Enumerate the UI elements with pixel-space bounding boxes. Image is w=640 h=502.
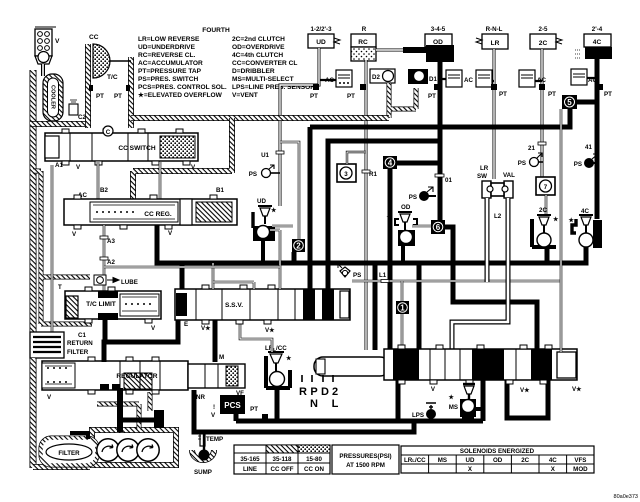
svg-text:V★: V★ bbox=[265, 327, 275, 334]
wire A3/A2 drop bbox=[103, 225, 106, 332]
svg-text:PS=PRES. SWITCH: PS=PRES. SWITCH bbox=[138, 76, 199, 83]
wire UD box down bbox=[280, 48, 319, 206]
svg-text:4C: 4C bbox=[593, 39, 602, 46]
accumulator AC (LR) bbox=[476, 70, 492, 87]
svg-text:VAL: VAL bbox=[503, 172, 515, 179]
svg-text:R: R bbox=[299, 386, 307, 398]
svg-text:V★: V★ bbox=[520, 387, 530, 394]
wire L1 bbox=[352, 280, 561, 283]
svg-text:01: 01 bbox=[445, 177, 452, 184]
wire lube arrow bbox=[107, 278, 119, 283]
wire CC REG feed from top of bus bbox=[155, 225, 160, 226]
pressure switch PS (L1) bbox=[338, 264, 361, 279]
svg-text:MS: MS bbox=[438, 457, 447, 464]
wire LR/CC sol to bottom bus (thick) bbox=[236, 390, 277, 421]
svg-text:2C: 2C bbox=[521, 457, 529, 464]
svg-text:4C: 4C bbox=[581, 208, 589, 215]
svg-text:★: ★ bbox=[447, 394, 454, 401]
pipe D2 to D1 (hatched) bbox=[389, 83, 416, 118]
tick on OD line bbox=[435, 174, 444, 177]
wire manual valve loop 2 (thick) bbox=[507, 380, 548, 418]
svg-text:T/C: T/C bbox=[107, 74, 118, 81]
svg-text:PT: PT bbox=[604, 91, 612, 98]
wire bottom bus (thick) bbox=[236, 419, 483, 424]
T/C enclosure dome top bbox=[110, 60, 131, 62]
svg-text:6: 6 bbox=[436, 223, 441, 232]
node 7 bbox=[536, 177, 555, 195]
wire manual valve loop 1 (thick) bbox=[398, 380, 483, 421]
wire A1 down bbox=[51, 165, 54, 335]
svg-text:UD: UD bbox=[257, 198, 266, 205]
svg-text:D=DRIBBLER: D=DRIBBLER bbox=[232, 68, 275, 75]
svg-text:2C: 2C bbox=[539, 40, 548, 47]
svg-text:S.S.V.: S.S.V. bbox=[225, 302, 243, 309]
svg-text:21: 21 bbox=[528, 145, 535, 152]
svg-text:FILTER: FILTER bbox=[58, 450, 80, 457]
svg-text:PT: PT bbox=[310, 93, 318, 100]
wire 4C sol down to bus (thick) bbox=[584, 247, 589, 263]
pipe left frame (hatched) bbox=[30, 70, 37, 467]
sump pickup bbox=[192, 434, 214, 476]
RC clutch box bbox=[351, 34, 376, 61]
svg-text:A1: A1 bbox=[55, 162, 63, 169]
pressure switch PS (01) bbox=[409, 187, 436, 201]
PCS solenoid box bbox=[220, 395, 245, 414]
wire SSV M port to regulator ext (thick) bbox=[213, 320, 218, 362]
wire PCS to bottom bus (thick) bbox=[234, 414, 239, 421]
svg-text:SUMP: SUMP bbox=[194, 469, 212, 476]
wire UD branch to node2 bbox=[280, 142, 299, 239]
svg-text:UD: UD bbox=[316, 39, 326, 46]
LR clutch box bbox=[476, 34, 508, 49]
svg-text:D: D bbox=[321, 386, 329, 398]
svg-text:80a0e373: 80a0e373 bbox=[614, 494, 638, 500]
svg-text:PS: PS bbox=[353, 272, 361, 279]
svg-text:PT: PT bbox=[428, 93, 436, 100]
pressure switch PS (41) bbox=[574, 154, 598, 168]
node 6 bbox=[431, 220, 445, 234]
pump gear 3 bbox=[137, 439, 159, 461]
svg-text:D2: D2 bbox=[372, 74, 380, 81]
CC SWITCH valve bbox=[45, 129, 198, 165]
wire node7 to 2C sol bbox=[545, 195, 548, 216]
svg-text:SOLENOIDS ENERGIZED: SOLENOIDS ENERGIZED bbox=[460, 448, 535, 455]
svg-text:★: ★ bbox=[567, 217, 574, 224]
S.S.V. valve bbox=[175, 285, 350, 324]
svg-text:PS: PS bbox=[409, 194, 417, 201]
dribbler D1 bbox=[408, 69, 437, 84]
svg-text:D1: D1 bbox=[429, 76, 437, 83]
wire node6 to manual valve (thick) bbox=[445, 227, 537, 350]
svg-text:PCS: PCS bbox=[224, 401, 241, 410]
wire node3 hook to R1 line bbox=[347, 152, 366, 164]
svg-text:15-80: 15-80 bbox=[306, 456, 322, 463]
solenoid OD bbox=[385, 204, 417, 262]
wire B2 drop bbox=[98, 162, 160, 200]
svg-text:LINE: LINE bbox=[243, 466, 257, 473]
PT tap bottom bus bbox=[250, 406, 268, 421]
svg-text:M: M bbox=[219, 354, 224, 361]
svg-text:L2: L2 bbox=[494, 213, 502, 220]
svg-text:PT: PT bbox=[114, 93, 122, 100]
node 4 bbox=[383, 156, 397, 169]
wire OD sol to node 6 bbox=[412, 225, 432, 228]
PT tap UD bbox=[310, 84, 319, 100]
svg-text:UD=UNDERDRIVE: UD=UNDERDRIVE bbox=[138, 44, 196, 51]
solenoid 2C bbox=[532, 207, 559, 247]
pressure switch PS (21) bbox=[518, 153, 543, 167]
wire RC down to manual valve bbox=[365, 60, 368, 350]
svg-text:4: 4 bbox=[388, 159, 393, 168]
pump gear 1 bbox=[97, 439, 119, 461]
UD clutch box bbox=[308, 34, 340, 48]
svg-text:LR=LOW REVERSE: LR=LOW REVERSE bbox=[138, 36, 200, 43]
svg-text:PT: PT bbox=[548, 91, 556, 98]
pump suction enclosure (hatched) bbox=[92, 430, 176, 465]
svg-text:PS: PS bbox=[249, 171, 257, 178]
cooler bbox=[43, 74, 63, 121]
wire UD sol to node 2 bbox=[272, 225, 293, 228]
svg-text:LR: LR bbox=[491, 40, 500, 47]
wire SSV E port to regulator (thick) bbox=[104, 320, 178, 362]
svg-text:FILTER: FILTER bbox=[67, 349, 89, 356]
svg-text:T/C LIMIT: T/C LIMIT bbox=[86, 301, 116, 308]
svg-text:NR: NR bbox=[196, 394, 205, 401]
svg-text:MS: MS bbox=[449, 404, 458, 411]
svg-text:R: R bbox=[362, 26, 367, 33]
wire MS sol to loop (thick) bbox=[476, 407, 483, 411]
node C circle bbox=[103, 126, 113, 136]
svg-text:CC OFF: CC OFF bbox=[270, 466, 293, 473]
PT tap T/C left bbox=[89, 85, 104, 100]
svg-text:!: ! bbox=[213, 404, 215, 411]
vent stack bbox=[35, 27, 60, 64]
MS box to bus bbox=[462, 416, 474, 422]
svg-text:PT: PT bbox=[347, 93, 355, 100]
pressure table bbox=[234, 445, 330, 474]
svg-text:5: 5 bbox=[567, 98, 572, 107]
svg-text:2C: 2C bbox=[539, 207, 547, 214]
svg-text:VFS: VFS bbox=[574, 457, 586, 464]
svg-text:LRL/CC: LRL/CC bbox=[404, 457, 426, 464]
svg-text:FOURTH: FOURTH bbox=[202, 27, 230, 34]
solenoid MS bbox=[449, 384, 476, 417]
svg-text:41: 41 bbox=[585, 144, 592, 151]
wire upper bus riser into node2 (thick) bbox=[303, 127, 305, 239]
pump gear 2 bbox=[117, 439, 139, 461]
wire A2 to SSV area bbox=[104, 266, 280, 269]
pipe frame to filter (hatched) bbox=[33, 464, 90, 470]
PT tap 2C bbox=[539, 84, 556, 98]
svg-text:L: L bbox=[332, 398, 339, 410]
PT tap OD bbox=[428, 84, 440, 100]
T/C enclosure left wall bbox=[85, 44, 91, 128]
svg-text:AC=ACCUMULATOR: AC=ACCUMULATOR bbox=[138, 60, 203, 67]
svg-text:AC: AC bbox=[464, 77, 473, 84]
svg-text:R-N-L: R-N-L bbox=[486, 26, 503, 33]
svg-text:C2: C2 bbox=[78, 114, 86, 121]
svg-text:AT 1500 RPM: AT 1500 RPM bbox=[346, 462, 385, 469]
LR switch valve bbox=[482, 181, 513, 198]
svg-text:3: 3 bbox=[344, 171, 348, 178]
wire RC to OD bbox=[376, 49, 404, 52]
accumulator AC (UD) bbox=[325, 70, 352, 87]
PT tap 4C bbox=[596, 84, 612, 98]
node 5 bbox=[562, 95, 577, 109]
accumulator AC (4C) bbox=[571, 69, 597, 85]
node 1 bbox=[396, 301, 409, 314]
svg-text:7: 7 bbox=[544, 184, 548, 191]
svg-text:SW: SW bbox=[477, 173, 487, 180]
svg-text:RETURN: RETURN bbox=[67, 340, 93, 347]
svg-text:REGULATOR: REGULATOR bbox=[116, 373, 157, 380]
svg-text:OD: OD bbox=[433, 39, 443, 46]
svg-text:RC: RC bbox=[358, 39, 368, 46]
manual valve stem bbox=[314, 357, 389, 376]
svg-text:2-5: 2-5 bbox=[539, 26, 549, 33]
accumulator stubs bbox=[320, 78, 596, 81]
wire regulator drain to outer bus (thick) bbox=[194, 390, 414, 432]
svg-text:PCS=PRES. CONTROL SOL.: PCS=PRES. CONTROL SOL. bbox=[138, 84, 227, 91]
solenoid 4C bbox=[567, 208, 602, 248]
wire suction branch (thick) bbox=[120, 418, 154, 423]
node 2 bbox=[292, 239, 305, 252]
wire main line bus (thick) bbox=[157, 226, 586, 263]
svg-text:★=ELEVATED OVERFLOW: ★=ELEVATED OVERFLOW bbox=[138, 91, 223, 99]
svg-text:★: ★ bbox=[285, 355, 292, 362]
svg-text:C: C bbox=[106, 129, 111, 136]
wire 4C clutch feed (thick) bbox=[595, 59, 600, 219]
solenoid LR/CC bbox=[265, 345, 292, 388]
svg-text:U1: U1 bbox=[261, 152, 269, 159]
svg-text:PS: PS bbox=[518, 160, 526, 167]
wire SSV to LR/CC sol bbox=[240, 320, 272, 352]
C2 component bbox=[69, 100, 86, 121]
svg-text:4C: 4C bbox=[549, 457, 557, 464]
svg-text:1-2/2'-3: 1-2/2'-3 bbox=[310, 26, 332, 33]
pressure switch PS (U1) bbox=[249, 165, 280, 178]
PT tap RC bbox=[347, 84, 366, 100]
svg-text:★: ★ bbox=[385, 214, 392, 221]
wire node2 to main bus (thick) bbox=[292, 252, 297, 264]
regulator right extension valve bbox=[188, 364, 245, 388]
solenoid UD bbox=[253, 198, 277, 263]
svg-text:35-118: 35-118 bbox=[273, 456, 292, 463]
svg-text:TEMP: TEMP bbox=[206, 436, 223, 443]
svg-text:B2: B2 bbox=[100, 187, 108, 194]
wire 2C box down bbox=[541, 49, 544, 178]
solenoids energized table bbox=[401, 446, 594, 473]
tick 21 bbox=[538, 142, 546, 145]
svg-text:PRESSURES(PSI): PRESSURES(PSI) bbox=[339, 453, 391, 460]
svg-text:CC: CC bbox=[89, 34, 99, 41]
accumulator AC (2C) bbox=[519, 70, 546, 87]
wire second upper bus (thick) bbox=[328, 141, 440, 289]
wire pump suction (thick) bbox=[117, 388, 123, 432]
4C clutch box (active) bbox=[575, 34, 612, 59]
wire bus riser x375 (thick) bbox=[373, 263, 378, 350]
svg-text:LRL/CC: LRL/CC bbox=[265, 345, 287, 352]
svg-text:PS: PS bbox=[574, 161, 582, 168]
tick L1 bbox=[381, 280, 389, 283]
tick R1 bbox=[362, 170, 370, 173]
sensor LPS bbox=[412, 403, 436, 419]
wire OD clutch feed (thick) bbox=[438, 62, 443, 234]
svg-text:COOLER: COOLER bbox=[50, 85, 56, 109]
svg-text:V=VENT: V=VENT bbox=[232, 92, 258, 99]
return filter bbox=[30, 332, 93, 358]
wire SSV top link bbox=[213, 282, 254, 289]
svg-text:B1: B1 bbox=[216, 187, 224, 194]
pressures caption box bbox=[332, 445, 399, 474]
converter feed line (hatched) to D2 bbox=[131, 115, 389, 121]
dribbler D2 bbox=[370, 69, 395, 83]
manual valve body bbox=[384, 345, 577, 384]
wire bus riser x419 (thick) bbox=[417, 263, 422, 350]
svg-text:P: P bbox=[310, 386, 317, 398]
svg-text:LUBE: LUBE bbox=[121, 279, 138, 286]
wire bus to SSV left end (thick) bbox=[180, 263, 185, 292]
svg-text:V: V bbox=[55, 38, 60, 45]
pipe return filter down (hatched) bbox=[30, 358, 37, 468]
svg-text:35-165: 35-165 bbox=[240, 456, 260, 463]
svg-text:E: E bbox=[184, 321, 188, 328]
OD clutch box (active) bbox=[425, 34, 454, 62]
svg-text:PT: PT bbox=[499, 91, 507, 98]
wire 2C sol to bus bbox=[545, 247, 550, 263]
pipe frame branch to lube (hatched) bbox=[33, 171, 92, 324]
lube dribbler bbox=[94, 275, 106, 285]
svg-text:V★: V★ bbox=[572, 386, 582, 393]
svg-text:PT=PRESSURE TAP: PT=PRESSURE TAP bbox=[138, 68, 202, 75]
wire C1 from T/C limit (thick) bbox=[103, 319, 108, 344]
svg-text:4C=4th CLUTCH: 4C=4th CLUTCH bbox=[232, 52, 283, 59]
2C clutch box bbox=[530, 34, 562, 49]
wire LR valve stem right (L2) bbox=[452, 198, 508, 350]
svg-text:L1: L1 bbox=[379, 272, 387, 279]
svg-text:T: T bbox=[58, 284, 62, 291]
wire node5 stub (thick) bbox=[577, 100, 597, 105]
svg-text:CC ON: CC ON bbox=[304, 466, 324, 473]
svg-text:3-4-5: 3-4-5 bbox=[431, 26, 446, 33]
T/C LIMIT valve bbox=[65, 287, 161, 323]
svg-text:LPS: LPS bbox=[412, 412, 424, 419]
svg-text:C1: C1 bbox=[78, 332, 86, 339]
thermometer TEMP bbox=[198, 431, 223, 446]
wire LR box down bbox=[493, 49, 496, 179]
svg-text:N: N bbox=[310, 398, 318, 410]
pipe cooler to T/C (hatched) bbox=[30, 121, 88, 127]
wire L1 to node1 to valve bbox=[401, 281, 404, 350]
regulator bottom ports bbox=[100, 384, 109, 390]
selector position ticks bbox=[302, 375, 333, 382]
node U1 tick bbox=[261, 151, 284, 159]
tick A2 bbox=[100, 257, 108, 260]
PT tap T/C right bbox=[114, 85, 130, 100]
port block bbox=[154, 410, 164, 428]
svg-text:2: 2 bbox=[296, 242, 301, 251]
svg-text:2: 2 bbox=[332, 386, 338, 398]
svg-text:LR: LR bbox=[480, 165, 489, 172]
svg-text:PT: PT bbox=[250, 406, 258, 413]
wire SSV top port 1 bbox=[212, 263, 215, 289]
svg-text:★: ★ bbox=[552, 216, 559, 223]
svg-text:2'-4: 2'-4 bbox=[592, 26, 603, 33]
converter clutch dome (dotted) bbox=[93, 44, 110, 78]
wire vent to cooler bbox=[41, 64, 45, 76]
svg-text:PT: PT bbox=[96, 93, 104, 100]
wire node5 down line (thin) bbox=[560, 109, 563, 352]
pipe suction channel (hatched) bbox=[97, 392, 150, 430]
svg-text:1: 1 bbox=[400, 304, 405, 313]
svg-text:OD=OVERDRIVE: OD=OVERDRIVE bbox=[232, 44, 285, 51]
svg-text:CC REG.: CC REG. bbox=[144, 211, 172, 218]
PT tap LR bbox=[491, 84, 507, 98]
svg-text:MOD: MOD bbox=[573, 466, 588, 473]
svg-text:2C=2nd CLUTCH: 2C=2nd CLUTCH bbox=[232, 36, 285, 43]
T/C enclosure right wall bbox=[128, 57, 134, 128]
pipe converter branch to B1 (hatched) bbox=[133, 118, 232, 199]
svg-text:CC SWITCH: CC SWITCH bbox=[118, 145, 156, 152]
wire upper bus to SSV bar1 (thick) bbox=[308, 127, 313, 289]
CC REG valve bbox=[64, 195, 237, 229]
filter body bbox=[41, 433, 97, 465]
wire UD sol overflow to SSV bbox=[270, 230, 280, 289]
tick A3 bbox=[100, 236, 108, 239]
svg-text:OD: OD bbox=[493, 457, 503, 464]
svg-text:RC=REVERSE CL.: RC=REVERSE CL. bbox=[138, 52, 196, 59]
svg-text:V★: V★ bbox=[201, 325, 211, 332]
wire node4 branch (thick) bbox=[390, 163, 440, 350]
svg-text:★: ★ bbox=[270, 207, 277, 214]
svg-text:UD: UD bbox=[466, 457, 475, 464]
svg-text:OD: OD bbox=[401, 204, 411, 211]
svg-text:MS=MULTI-SELECT: MS=MULTI-SELECT bbox=[232, 76, 294, 83]
wire LR valve stem left bbox=[485, 198, 490, 282]
REGULATOR valve bbox=[42, 357, 188, 394]
wire node5 to upper bus (thick) bbox=[310, 109, 570, 127]
node 3 bbox=[337, 164, 356, 182]
svg-text:CC=CONVERTER CL: CC=CONVERTER CL bbox=[232, 60, 297, 67]
accumulator AC (OD) bbox=[446, 70, 473, 87]
